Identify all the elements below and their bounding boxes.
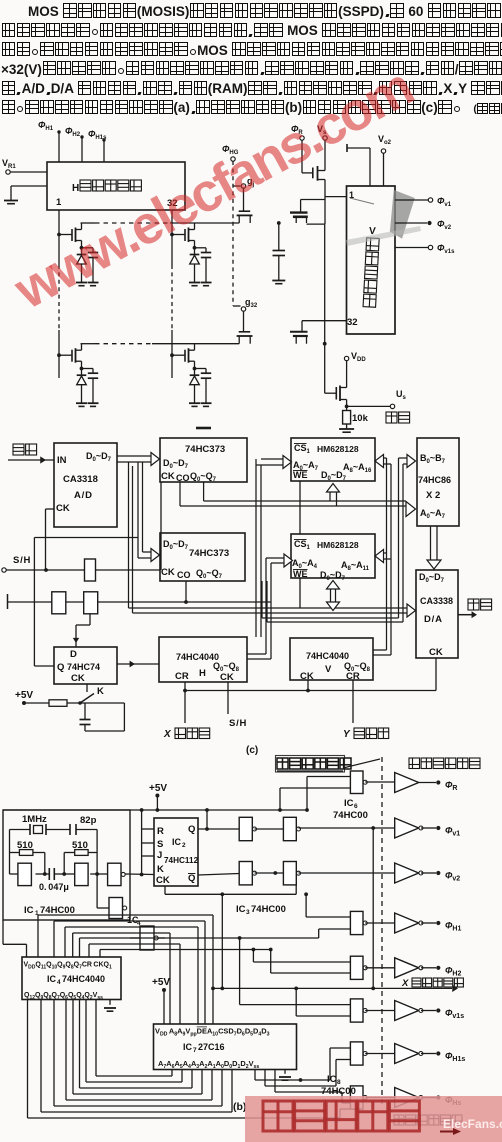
node CO-2 junction — [184, 600, 188, 604]
NAND gate for phi-V1s — [350, 999, 367, 1022]
wire address bus A0 nest — [95, 1000, 97, 1077]
ground under photodiode of pixel cell row1-col1 — [76, 283, 87, 286]
switch K contact — [78, 701, 82, 705]
wire column-1 lower segment — [58, 330, 60, 378]
underline of timing label — [277, 770, 343, 772]
wire out of IC5 — [158, 937, 165, 939]
wire second control line with gates — [7, 594, 9, 609]
gate G-b — [52, 592, 66, 614]
photodiode of pixel cell row1-col1 — [81, 248, 83, 255]
source-follower MOS transistor Q-sf — [335, 387, 337, 400]
wire osc out to IC2 CK — [125, 873, 154, 876]
terminal U-s output — [390, 404, 394, 408]
svg-text:www.elecfans.com: www.elecfans.com — [4, 57, 421, 321]
buffer phi-V2 — [395, 863, 423, 883]
svg-text:82p: 82p — [80, 815, 97, 826]
wire row-1 bus right section — [170, 222, 239, 224]
svg-text:K: K — [97, 686, 104, 697]
arrowhead into CA3338 — [407, 604, 416, 617]
bus 74HC373-2 Q to 74HC86 B (hollow) — [398, 458, 400, 618]
bus 4040H Q to HM628128 address (hollow) — [255, 459, 257, 637]
NAND gate for phi-Hs — [350, 1086, 367, 1109]
bus CA3318 to 74HC373-1 (hollow arrow) — [117, 455, 151, 457]
svg-text:74HC00: 74HC00 — [321, 1086, 356, 1097]
arrowhead output — [472, 611, 477, 618]
svg-text:CK: CK — [56, 503, 70, 514]
svg-text:D0~D7: D0~D7 — [419, 572, 445, 584]
wire gate to buffer phi-H1 — [365, 922, 395, 924]
arrowhead X scan — [452, 985, 458, 992]
ground under photodiode of pixel cell row1-col32 — [189, 283, 200, 286]
wire bus Q8 to EPROM A8 — [72, 933, 74, 957]
phi-H2 input dot — [80, 135, 83, 138]
wire to V register pin 1 — [325, 196, 347, 198]
wire column-1 line from pin 1 — [58, 210, 60, 265]
wire H2 gate input top — [253, 961, 350, 963]
svg-text:CA3338: CA3338 — [420, 596, 453, 606]
svg-text:VDD A8A9VppDEA10CSD7D6D5D4D3: VDD A8A9VppDEA10CSD7D6D5D4D3 — [155, 1027, 270, 1038]
wire phi-H1s to H register — [103, 140, 105, 162]
terminal phi-H1s — [436, 1051, 440, 1055]
bus 4040H Q out right to HM628128-2 A (hollow) — [247, 653, 266, 655]
wire bus Q11 to EPROM CS — [37, 915, 39, 957]
svg-text:Φv1: Φv1 — [445, 826, 460, 838]
svg-text:ΦH1s: ΦH1s — [445, 1051, 465, 1063]
svg-text:+5V: +5V — [15, 690, 33, 701]
wire into phi-Hs gate — [340, 1108, 350, 1110]
wire V1s gate input top — [240, 1004, 351, 1006]
svg-text:74HC00: 74HC00 — [333, 810, 368, 821]
svg-text:3: 3 — [246, 909, 250, 916]
svg-text:CK: CK — [161, 471, 175, 482]
wire +5V pullups into IC2 — [141, 810, 143, 875]
photodiode of pixel cell row2-col1 — [81, 369, 83, 376]
arrowhead down to data bus — [327, 602, 340, 611]
svg-text:32: 32 — [347, 317, 358, 328]
MOS switch transistor of pixel cell row1-col32 — [170, 233, 174, 237]
resistor R-k — [49, 700, 67, 707]
wire address bus A5 nest — [53, 1000, 55, 1107]
svg-text:CK: CK — [161, 567, 175, 578]
svg-text:Vo2: Vo2 — [378, 134, 392, 146]
wire IC3a to IC3b — [255, 828, 284, 830]
label 输出 (output) — [386, 412, 410, 423]
arrowhead into D — [73, 638, 79, 643]
svg-text:S / H: S / H — [229, 718, 247, 729]
wire IC3c to IC3d — [255, 872, 284, 874]
arrowhead up into HM628128-1 D — [327, 484, 340, 493]
wire CR-V to Y-axis pulse — [352, 680, 354, 723]
svg-text:Φv2: Φv2 — [445, 871, 460, 883]
label 电平转换电路 (level shift) — [409, 758, 480, 769]
wire S/H line — [6, 569, 85, 571]
buffer phi-V1 — [395, 818, 423, 838]
NAND gate for phi-H1 — [350, 911, 367, 934]
wire bus CK long row line — [99, 950, 101, 958]
storage capacitor of pixel cell row1-col1 — [82, 247, 94, 249]
storage capacitor of pixel cell row2-col1 — [82, 368, 94, 370]
wire R2 left to node — [63, 853, 65, 875]
terminal phi-v1 — [428, 198, 432, 202]
wire phi-v1s output — [395, 247, 428, 249]
svg-text:CO: CO — [176, 473, 190, 483]
svg-text:H: H — [199, 668, 206, 679]
svg-text:1: 1 — [56, 197, 62, 208]
arrowhead into CA3338 top — [427, 560, 441, 569]
label H移位寄存器 — [72, 180, 141, 194]
svg-text:K: K — [157, 864, 164, 875]
svg-text:X: X — [401, 978, 409, 989]
wire V1s gate input bottom — [296, 1015, 350, 1017]
svg-text:74HC86: 74HC86 — [418, 475, 451, 485]
svg-text:CR: CR — [175, 671, 189, 682]
node photodiode of pixel cell row1-col1 — [80, 246, 84, 250]
svg-text:4: 4 — [57, 979, 61, 986]
svg-text:WE: WE — [293, 470, 308, 480]
svg-text:Φv1: Φv1 — [437, 196, 452, 208]
label 轴脉冲 (X-axis pulse) — [175, 728, 210, 739]
terminal phi-v2 — [427, 221, 431, 225]
svg-text:74HC373: 74HC373 — [185, 444, 225, 455]
node output — [345, 405, 349, 409]
phi-H1 input dot — [57, 130, 60, 133]
svg-text:ElecFans.com: ElecFans.com — [443, 1117, 502, 1131]
arrowhead up into HM628128-2 D — [327, 581, 340, 590]
terminal V-s — [323, 136, 327, 140]
reset MOS transistor Q-r — [312, 168, 314, 179]
bus data long to CA3338 (hollow) — [128, 462, 130, 608]
node D0 branch — [299, 1078, 303, 1082]
wire column-32 dashed continuation — [171, 265, 173, 330]
wire +5V drop — [156, 797, 158, 810]
RAM U-HM628128-2 — [291, 534, 375, 578]
svg-text:WE: WE — [293, 569, 308, 579]
NAND gate IC3a — [239, 817, 256, 840]
wire Q-c1 gate — [300, 200, 302, 213]
wire column-32 lower segment — [171, 330, 173, 378]
frame around timing logic label — [276, 756, 345, 773]
latch U-74HC373-1 — [160, 438, 247, 482]
svg-text:ΦH1: ΦH1 — [38, 120, 54, 132]
terminal V-R1 — [6, 170, 10, 174]
wire address bus A3 nest — [72, 1000, 74, 1095]
buffer phi-H2 — [395, 958, 423, 978]
wire address bus A6 nest — [40, 1000, 42, 1113]
ground under capacitor of pixel cell row1-col1 — [88, 283, 99, 286]
node S/H branch — [44, 568, 48, 572]
wire phi-H1 to H register — [58, 132, 60, 162]
svg-text:VDD: VDD — [351, 351, 366, 363]
wire D0 output to IC8 — [254, 1070, 256, 1081]
arrowhead into HM628128-2 A8 — [375, 550, 384, 563]
WE control stubs — [299, 481, 301, 534]
ground under capacitor of pixel cell row2-col32 — [201, 403, 212, 406]
wire bus Q10 to EPROM A10 — [53, 921, 55, 957]
wire V register pin 32 out — [302, 320, 347, 322]
svg-text:74HC4040: 74HC4040 — [306, 651, 349, 661]
wire V-o2 into V register — [383, 153, 385, 186]
wire row-2 bus dashed section — [95, 343, 152, 345]
terminal phi-v1s — [428, 245, 432, 249]
node video line row2 — [323, 342, 327, 346]
svg-text:ΦH2: ΦH2 — [65, 126, 81, 138]
dark red arrow in watermark area — [440, 1131, 456, 1133]
bus 74HC86 to CA3338 (hollow vertical) — [430, 526, 432, 560]
wire row-1 bus dashed section — [95, 222, 170, 224]
ground under R1 — [339, 429, 354, 432]
buffer phi-Hs — [395, 1088, 423, 1108]
terminal S/H — [2, 568, 6, 572]
svg-text:Φv1s: Φv1s — [437, 243, 455, 255]
row-select MOS transistor Q-g32 — [243, 311, 245, 332]
arrowhead input — [40, 456, 46, 463]
wire row-2 bus right section — [152, 343, 239, 345]
wire bus CR to EPROM A9 — [88, 944, 90, 957]
label V移位寄存器 (rotated) — [363, 226, 380, 307]
storage capacitor of pixel cell row2-col32 — [195, 368, 207, 370]
phi-H1s input dot — [102, 138, 105, 141]
ground under IC4 Vss — [104, 1008, 116, 1011]
svg-text:A8~A16: A8~A16 — [343, 462, 372, 474]
svg-text:CS1: CS1 — [294, 539, 311, 551]
wire D1 output to IC8 — [264, 1070, 266, 1087]
svg-text:8: 8 — [337, 1079, 341, 1086]
wire CO-2 down — [185, 581, 187, 602]
svg-text:10k: 10k — [352, 413, 369, 424]
NAND gate IC1d — [109, 898, 127, 919]
arrowhead into HM628128-1 A8 — [375, 455, 384, 468]
wire +5V rail — [3, 809, 307, 811]
NAND gate IC1a — [18, 863, 32, 885]
NAND gate IC3b — [283, 817, 300, 840]
wire Q output — [198, 828, 239, 830]
photodiode of pixel cell row1-col32 — [194, 248, 196, 255]
svg-text:A8~A11: A8~A11 — [341, 560, 370, 572]
wire into IC5 — [130, 937, 140, 939]
wire phi-V1 row line — [299, 827, 396, 829]
label 输入 (input) — [13, 444, 37, 455]
svg-text:IC: IC — [327, 1074, 337, 1085]
bus HM628128-1 data vertical (hollow) — [329, 492, 331, 501]
wire phi-v2 output — [395, 222, 427, 224]
wire V-s down — [324, 140, 326, 171]
terminal phi-V1 — [436, 826, 440, 830]
wire address bus A4 nest — [65, 1000, 67, 1101]
svg-text:+5V: +5V — [149, 783, 167, 794]
svg-text:74HC4040: 74HC4040 — [62, 974, 105, 984]
svg-text:CK: CK — [429, 647, 443, 658]
NAND gate IC6a — [350, 771, 367, 794]
node photodiode of pixel cell row2-col1 — [80, 367, 84, 371]
svg-text:J: J — [157, 850, 162, 861]
svg-text:CK: CK — [71, 673, 85, 684]
svg-text:S / H: S / H — [13, 555, 31, 566]
terminal phi-Hs — [436, 1095, 440, 1099]
wire to buffer phi-R — [365, 781, 395, 783]
svg-text:D / A: D / A — [424, 614, 442, 625]
counter U-74HC4040-V — [290, 638, 373, 680]
wire gate to buffer phi-V1s — [365, 1010, 395, 1012]
ground under EPROM Vss — [279, 1077, 291, 1080]
svg-text:D0~D7: D0~D7 — [163, 458, 189, 470]
wire R2 right to node — [96, 830, 98, 875]
svg-text:CK: CK — [300, 671, 314, 682]
bus 74HC373-1 Q to 74HC86 A (hollow) — [179, 482, 181, 506]
svg-text:R: R — [157, 826, 164, 837]
wire long bottom bus upturn — [339, 1109, 341, 1118]
terminal V-o2 — [381, 149, 385, 153]
wire Q-c2 gate — [301, 321, 303, 332]
switch K lever — [80, 694, 94, 704]
wire phi-V2 row line — [299, 872, 396, 874]
wire FF CK to switch — [86, 684, 88, 692]
wire osc left feedback — [9, 830, 11, 875]
wire long mesh line / X-scan arrow — [213, 987, 452, 989]
terminal g-32 — [241, 307, 245, 311]
watermark 电子发烧友 — [263, 1101, 419, 1131]
wire IC6a input bottom — [280, 787, 350, 789]
svg-text:IC: IC — [236, 904, 246, 915]
svg-text:74HC112: 74HC112 — [164, 856, 199, 865]
arrowhead into 74HC86 B — [407, 455, 416, 468]
wire video bus to corner — [307, 223, 325, 225]
pink watermark banner bottom right — [245, 1096, 502, 1142]
wire phi-R down — [301, 140, 303, 173]
cascode MOS transistor Q-c2 (row2) — [290, 331, 308, 333]
svg-text:IC: IC — [172, 837, 182, 847]
NAND gate for phi-H1s — [350, 1042, 367, 1065]
svg-text:ΦH2: ΦH2 — [445, 965, 461, 977]
wire R1 to node — [44, 853, 46, 875]
arrowhead into 74HC373-1 — [151, 453, 160, 466]
EPROM U-IC7 27C16 — [154, 1024, 297, 1070]
wire row-1 video bus — [81, 222, 96, 224]
terminal phi-V1s — [436, 1008, 440, 1012]
NAND gate for phi-H2 — [350, 956, 367, 979]
wire V-DD link from +5V rail — [2, 920, 4, 944]
wire phi-V1 tap down — [372, 828, 374, 988]
svg-text:1MHz: 1MHz — [22, 814, 47, 825]
svg-text:A7A6A5A4A3A2A1A0D0D1D2Vss: A7A6A5A4A3A2A1A0D0D1D2Vss — [158, 1059, 259, 1070]
svg-text:A0~A7: A0~A7 — [420, 508, 446, 520]
svg-text:CA3318: CA3318 — [63, 474, 98, 485]
ground under capacitor of pixel cell row2-col1 — [88, 403, 99, 406]
svg-text:74HC373: 74HC373 — [189, 548, 229, 559]
svg-text:HM628128: HM628128 — [317, 444, 359, 454]
ground under photodiode of pixel cell row2-col1 — [76, 403, 87, 406]
bus branch down to 74HC373-2 — [137, 462, 139, 558]
wire H1 gate input bottom — [319, 928, 351, 930]
D/A converter U-CA3338 — [416, 570, 458, 658]
wire input into CA3318 — [8, 459, 54, 461]
counter U-74HC4040-H — [159, 637, 247, 682]
arrowhead into HM628128-2 A — [284, 554, 293, 567]
wire video line vertical — [324, 224, 326, 344]
node video line capacitor row1 — [277, 221, 281, 225]
wire Qbar output — [198, 874, 239, 876]
wire output of CA3338 — [458, 614, 474, 616]
wire CK-H to S/H — [227, 682, 229, 714]
svg-text:VDDQ11Q10Q9Q8Q7CR CKQ1: VDDQ11Q10Q9Q8Q7CR CKQ1 — [24, 962, 112, 971]
wire address bus A7 nest — [27, 1000, 29, 1119]
svg-text:Us: Us — [396, 389, 407, 401]
flip-flop U-74HC74 — [54, 647, 117, 684]
latch U-74HC373-2 — [160, 533, 245, 581]
crystal X1 — [10, 829, 31, 831]
intro paragraph (6 lines of Chinese text) — [1, 2, 502, 118]
wire D input of flip-flop — [89, 614, 91, 625]
terminal phi-V2 — [436, 871, 440, 875]
wire IC6a input top — [307, 776, 350, 778]
svg-text:74HC74: 74HC74 — [67, 662, 100, 672]
wire dashed boundary line — [381, 757, 383, 1108]
wire +5V to EPROM VDD — [163, 992, 165, 1024]
svg-text:X 2: X 2 — [426, 490, 440, 501]
arrowhead into 74HC86 A — [406, 502, 416, 517]
wire phi-H2 to H register — [81, 137, 83, 162]
svg-text:CK: CK — [220, 672, 234, 683]
wire bus Q7 long row line — [79, 938, 81, 957]
MOS switch transistor of pixel cell row2-col32 — [170, 353, 174, 357]
wire column-32 line from pin 32 — [171, 210, 173, 265]
wire H2 gate input bottom — [271, 972, 351, 974]
arrowhead into 74HC373-2 — [151, 549, 160, 562]
svg-text:+5V: +5V — [152, 977, 170, 988]
terminal phi-R — [436, 780, 440, 784]
svg-text:2: 2 — [182, 842, 186, 849]
NAND gate IC3d — [283, 862, 300, 885]
svg-text:IC: IC — [24, 905, 34, 916]
terminal V-DD — [344, 356, 348, 360]
terminal phi-HG — [231, 157, 235, 161]
svg-text:74HC00: 74HC00 — [251, 904, 286, 915]
svg-text:Φv2: Φv2 — [437, 219, 452, 231]
svg-text:IC: IC — [47, 974, 57, 984]
bus 4040V to HM right side (hollow vertical) — [386, 458, 388, 650]
svg-text:CK: CK — [156, 875, 170, 886]
wire mesh vertical from feedback — [221, 894, 223, 988]
RAM U-HM628128-1 — [291, 438, 375, 481]
storage capacitor of pixel cell row1-col32 — [195, 247, 207, 249]
terminal phi-R — [300, 136, 304, 140]
ground under capacitor of pixel cell row1-col32 — [201, 283, 212, 286]
wire reset source node — [324, 180, 326, 200]
wire CA3338 CK drop — [435, 658, 437, 691]
wire gate to buffer phi-H1s — [365, 1053, 395, 1055]
capacitor C-0.047u — [45, 873, 50, 875]
label 输出 (output) — [468, 599, 492, 610]
buffer B1 phi-R — [395, 773, 419, 793]
svg-text:X: X — [163, 729, 172, 740]
wire bus Q9 to EPROM DE — [64, 927, 66, 957]
wire H1 gate input top — [306, 916, 350, 918]
gate G-c — [84, 592, 98, 614]
wire address bus A2 nest — [79, 1000, 81, 1089]
wire Q feedback of flip-flop — [33, 538, 35, 667]
wire row-2 video bus — [81, 343, 96, 345]
label Y轴扫描脉冲 (Y scan pulse) — [394, 1115, 462, 1125]
wire gate to buffer phi-H2 — [365, 967, 395, 969]
wire CK-V drop — [307, 680, 309, 691]
capacitor C-v1 on video line — [278, 223, 280, 251]
buffer phi-H1s — [395, 1044, 423, 1064]
svg-text:H: H — [72, 183, 79, 194]
wire video line to source follower — [324, 344, 326, 394]
scan artifact dark blob on V register — [387, 190, 415, 240]
wire CK1 to S/H line — [160, 482, 162, 570]
svg-text:Q: Q — [188, 824, 195, 835]
svg-text:CS1: CS1 — [294, 443, 311, 455]
